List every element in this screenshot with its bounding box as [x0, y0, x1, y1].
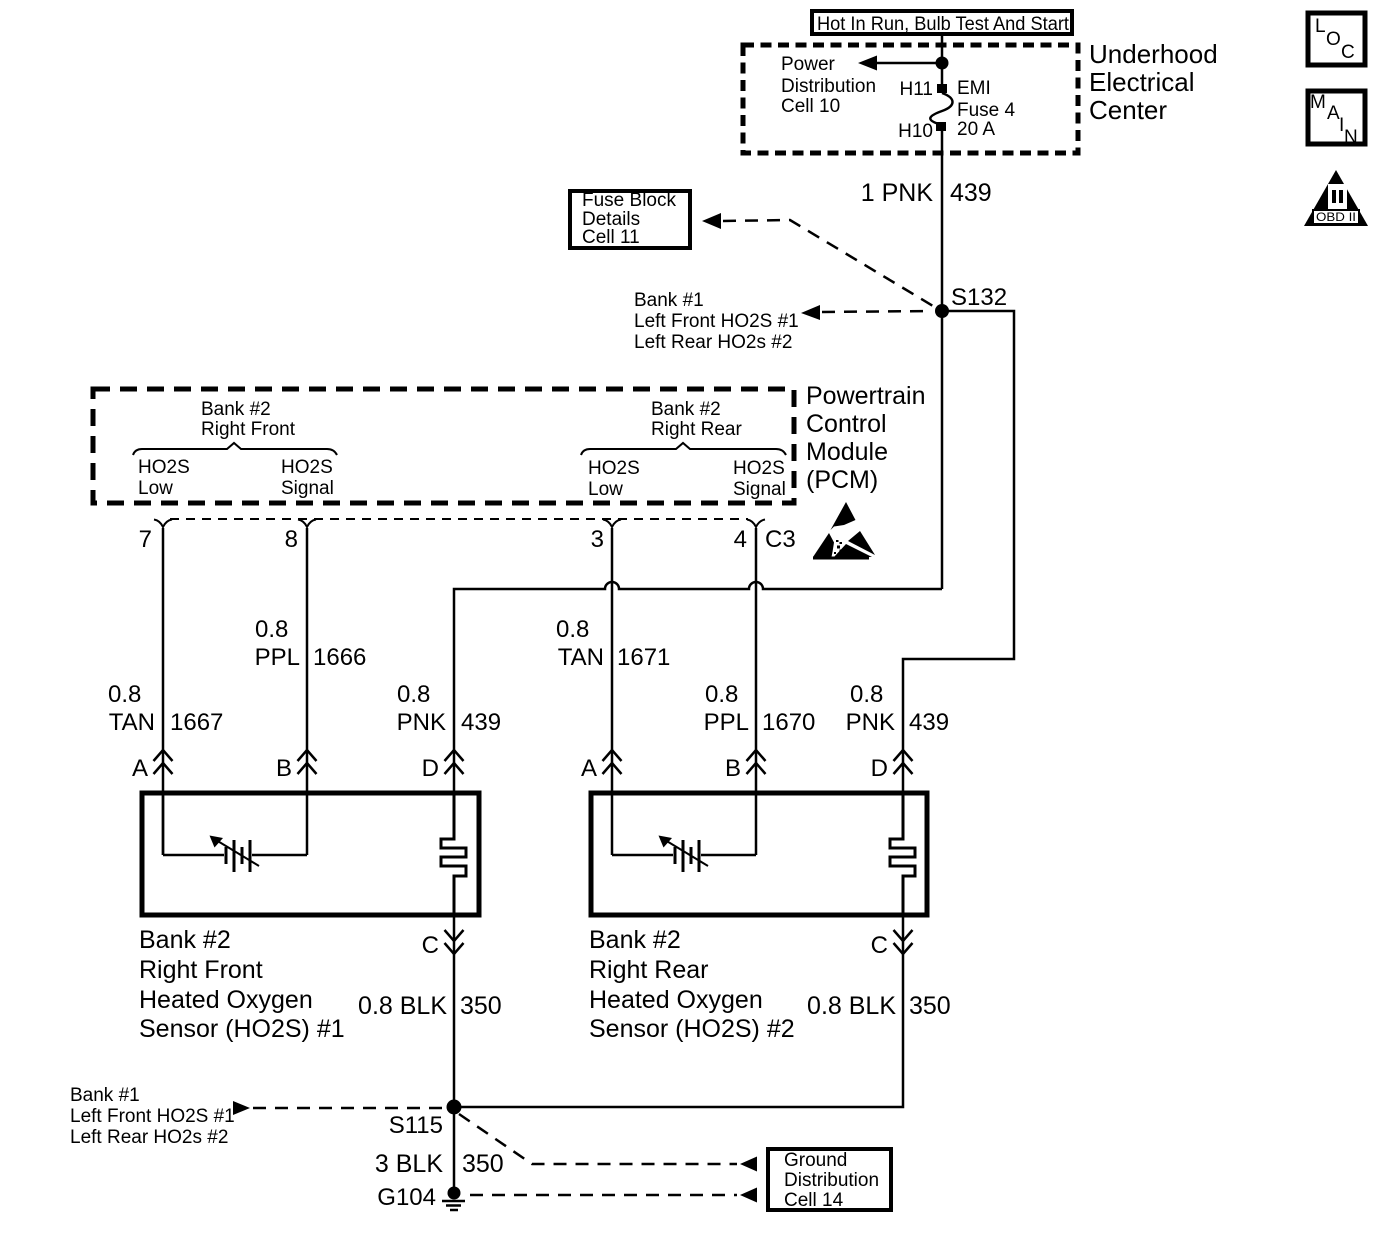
svg-text:Bank #2: Bank #2 — [201, 399, 271, 420]
svg-text:0.8: 0.8 — [556, 616, 589, 643]
label: 0.8 TAN 1667 — [108, 681, 223, 736]
svg-text:Bank #2: Bank #2 — [589, 926, 681, 954]
svg-text:Right Rear: Right Rear — [651, 419, 742, 440]
svg-text:Distribution: Distribution — [784, 1170, 879, 1191]
svg-text:350: 350 — [462, 1150, 504, 1178]
wire: main PNK 439 down and left to left sensor D (with hops) — [941, 311, 944, 589]
svg-text:0.8: 0.8 — [705, 681, 738, 708]
label box: Ground Distribution Cell 14 — [768, 1149, 891, 1211]
svg-text:1667: 1667 — [170, 709, 223, 736]
svg-text:Power: Power — [781, 54, 836, 75]
wire S115 to G104 — [453, 1107, 456, 1192]
svg-text:Left Front HO2S #1: Left Front HO2S #1 — [634, 311, 799, 332]
svg-text:Center: Center — [1089, 95, 1167, 125]
svg-text:0.8: 0.8 — [850, 681, 883, 708]
svg-text:Control: Control — [806, 410, 887, 438]
svg-text:Hot In Run, Bulb Test And Star: Hot In Run, Bulb Test And Start — [817, 14, 1070, 35]
svg-text:PPL: PPL — [704, 709, 749, 736]
connector pin A (sensor 1) — [132, 750, 173, 782]
label: HO2S Low (pin 3) — [588, 458, 640, 500]
svg-text:Left Rear HO2s #2: Left Rear HO2s #2 — [634, 332, 792, 353]
svg-text:HO2S: HO2S — [281, 457, 333, 478]
svg-text:Low: Low — [588, 479, 623, 500]
dashed reference arrow G104 to Ground Distribution — [470, 1188, 757, 1203]
sensor 1 box (HO2S #1) — [142, 793, 479, 915]
wire pin 4 to sensor 2 (HO2S signal) — [755, 538, 758, 855]
svg-text:D: D — [871, 755, 888, 782]
svg-text:20 A: 20 A — [957, 119, 995, 140]
label: 0.8 BLK 350 (right) — [807, 992, 951, 1020]
svg-text:Fuse Block: Fuse Block — [582, 190, 676, 211]
label: 0.8 BLK 350 (left) — [358, 992, 502, 1020]
label: PCM group Bank #2 Right Rear — [651, 399, 742, 440]
svg-text:(PCM): (PCM) — [806, 466, 878, 494]
svg-text:0.8 BLK: 0.8 BLK — [807, 992, 896, 1020]
svg-text:L: L — [1315, 16, 1326, 37]
svg-text:Right Front: Right Front — [139, 956, 263, 984]
svg-text:PNK: PNK — [846, 709, 895, 736]
node junction dot on feed wire — [936, 57, 949, 70]
dashed reference arrow to Bank #1 (top) — [801, 305, 932, 320]
svg-text:350: 350 — [909, 992, 951, 1020]
dashed reference arrow S115 to Ground Distribution — [459, 1114, 757, 1172]
label: Powertrain Control Module (PCM) — [806, 382, 926, 494]
svg-text:D: D — [422, 755, 439, 782]
svg-text:A: A — [581, 755, 597, 782]
LOC icon box — [1308, 13, 1365, 65]
svg-text:TAN: TAN — [558, 644, 604, 671]
label: Bank #1 reference (bottom) — [70, 1085, 235, 1148]
svg-text:1 PNK: 1 PNK — [861, 179, 934, 207]
svg-text:Heated Oxygen: Heated Oxygen — [139, 986, 313, 1014]
svg-text:0.8: 0.8 — [255, 616, 288, 643]
label: sensor 1 name — [139, 926, 345, 1043]
sensor 2 heater element — [890, 793, 915, 915]
MAIN icon box — [1308, 91, 1365, 148]
svg-text:Underhood: Underhood — [1089, 39, 1218, 69]
label: 0.8 PPL 1666 — [255, 616, 367, 671]
svg-text:EMI: EMI — [957, 78, 991, 99]
wire PNK 439 from fuse to S132 — [941, 131, 944, 311]
label box: Fuse Block Details Cell 11 — [570, 190, 690, 248]
svg-text:Left Front HO2S #1: Left Front HO2S #1 — [70, 1106, 235, 1127]
svg-text:Low: Low — [138, 478, 173, 499]
svg-text:Fuse 4: Fuse 4 — [957, 100, 1016, 121]
connector pin C (sensor 1) — [422, 930, 464, 959]
connector C3 dashed tie line — [170, 518, 748, 520]
svg-text:Bank #2: Bank #2 — [651, 399, 721, 420]
sensor 1 heater element — [441, 793, 466, 915]
label: HO2S Signal (pin 4) — [733, 458, 786, 500]
svg-text:S132: S132 — [951, 284, 1007, 311]
svg-text:8: 8 — [285, 526, 298, 553]
wire from Hot In Run box down to fuse — [941, 34, 944, 85]
label: Underhood Electrical Center — [1089, 39, 1218, 125]
svg-text:Cell 10: Cell 10 — [781, 96, 840, 117]
wire pin 7 to sensor 1 (HO2S low) — [162, 538, 165, 855]
svg-text:Powertrain: Powertrain — [806, 382, 926, 410]
svg-text:Heated Oxygen: Heated Oxygen — [589, 986, 763, 1014]
svg-text:Sensor (HO2S) #1: Sensor (HO2S) #1 — [139, 1015, 345, 1043]
svg-text:C: C — [1341, 42, 1355, 63]
svg-text:1671: 1671 — [617, 644, 670, 671]
svg-text:TAN: TAN — [109, 709, 155, 736]
svg-text:Signal: Signal — [281, 478, 334, 499]
connector pin B (sensor 1) — [276, 750, 317, 782]
label: Bank #1 reference (top) — [634, 290, 799, 353]
terminal H11 — [937, 84, 947, 93]
wire pin 8 to sensor 1 (HO2S signal) — [306, 538, 309, 855]
label: PCM group Bank #2 Right Front — [201, 399, 296, 440]
connector pin B (sensor 2) — [725, 750, 766, 782]
svg-text:S115: S115 — [389, 1112, 443, 1139]
svg-text:Ground: Ground — [784, 1150, 847, 1171]
terminal H10 — [936, 122, 946, 131]
svg-text:OBD II: OBD II — [1316, 210, 1356, 224]
svg-text:Electrical: Electrical — [1089, 67, 1194, 97]
svg-text:0.8: 0.8 — [397, 681, 430, 708]
label: 0.8 PPL 1670 — [704, 681, 816, 736]
label: HO2S Low (pin 7) — [138, 457, 190, 499]
svg-text:PPL: PPL — [255, 644, 300, 671]
underhood electrical center dashed box — [743, 45, 1078, 153]
brace right — [581, 443, 786, 455]
splice S132 — [935, 304, 949, 318]
fuse F4 EMI 20A — [930, 93, 952, 124]
svg-text:H11: H11 — [900, 79, 933, 100]
svg-text:0.8 BLK: 0.8 BLK — [358, 992, 447, 1020]
label: 0.8 PNK 439 (right) — [846, 681, 949, 736]
svg-text:Distribution: Distribution — [781, 76, 876, 97]
label: 1 PNK 439 — [861, 179, 992, 207]
svg-text:Right Front: Right Front — [201, 419, 296, 440]
connector pin 3 — [591, 520, 621, 554]
svg-text:C3: C3 — [765, 526, 796, 553]
wire pin 3 to sensor 2 (HO2S low) — [611, 538, 614, 855]
ESD sensitivity symbol — [813, 502, 875, 560]
label: 0.8 PNK 439 (left) — [397, 681, 501, 736]
label: EMI Fuse 4 20 A — [957, 78, 1016, 140]
svg-text:Bank #2: Bank #2 — [139, 926, 231, 954]
svg-text:439: 439 — [909, 709, 949, 736]
svg-text:7: 7 — [139, 526, 152, 553]
dashed reference arrow to Fuse Block Details — [702, 213, 938, 309]
sensor 2 box (HO2S #2) — [591, 793, 927, 915]
svg-text:Cell 14: Cell 14 — [784, 1190, 844, 1211]
OBD II icon — [1304, 170, 1368, 226]
connector pin D (sensor 1) — [422, 750, 464, 782]
sensor 2 variable cell element — [612, 836, 756, 873]
svg-text:439: 439 — [950, 179, 992, 207]
label box: Hot In Run, Bulb Test And Start — [812, 11, 1072, 35]
PCM dashed box — [93, 389, 794, 503]
svg-text:B: B — [276, 755, 292, 782]
connector pin 8 — [285, 520, 316, 554]
svg-text:3: 3 — [591, 526, 604, 553]
svg-text:HO2S: HO2S — [733, 458, 785, 479]
svg-text:M: M — [1310, 92, 1326, 113]
svg-text:C: C — [871, 932, 888, 959]
label: Power Distribution Cell 10 — [781, 54, 876, 117]
svg-text:1670: 1670 — [762, 709, 815, 736]
svg-text:C: C — [422, 932, 439, 959]
label: sensor 2 name — [589, 926, 795, 1043]
connector pin 7 — [139, 520, 172, 554]
svg-text:G104: G104 — [377, 1184, 436, 1211]
arrow to Power Distribution — [858, 56, 942, 71]
splice S115 — [447, 1100, 462, 1115]
svg-text:PNK: PNK — [397, 709, 446, 736]
wire sensor 1 C to S115 — [453, 915, 456, 1107]
svg-text:Cell 11: Cell 11 — [582, 227, 640, 248]
svg-text:Bank #1: Bank #1 — [70, 1085, 140, 1106]
svg-text:Sensor (HO2S) #2: Sensor (HO2S) #2 — [589, 1015, 795, 1043]
svg-text:0.8: 0.8 — [108, 681, 141, 708]
connector pin D (sensor 2) — [871, 750, 913, 782]
label: HO2S Signal (pin 8) — [281, 457, 334, 499]
svg-text:Module: Module — [806, 438, 888, 466]
svg-text:3 BLK: 3 BLK — [375, 1150, 443, 1178]
connector pin 4 — [734, 520, 765, 554]
svg-text:Right Rear: Right Rear — [589, 956, 709, 984]
ground G104 — [442, 1187, 465, 1211]
svg-text:4: 4 — [734, 526, 747, 553]
svg-text:HO2S: HO2S — [588, 458, 640, 479]
wire: S132 right branch down to right sensor D — [903, 311, 1014, 791]
dashed reference arrow from Bank #1 (bottom) to S115 — [233, 1101, 443, 1115]
connector pin A (sensor 2) — [581, 750, 622, 782]
sensor 1 variable cell element — [163, 793, 307, 872]
svg-text:O: O — [1326, 29, 1341, 50]
wire sensor 2 C to S115 — [454, 915, 903, 1107]
svg-text:1666: 1666 — [313, 644, 366, 671]
svg-text:HO2S: HO2S — [138, 457, 190, 478]
svg-text:H10: H10 — [898, 121, 933, 142]
svg-text:B: B — [725, 755, 741, 782]
svg-text:Signal: Signal — [733, 479, 786, 500]
label: 0.8 TAN 1671 — [556, 616, 670, 671]
label: 3 BLK 350 — [375, 1150, 504, 1178]
svg-text:350: 350 — [460, 992, 502, 1020]
svg-text:N: N — [1344, 127, 1358, 148]
svg-text:Left Rear HO2s #2: Left Rear HO2s #2 — [70, 1127, 228, 1148]
svg-text:439: 439 — [461, 709, 501, 736]
svg-text:A: A — [132, 755, 148, 782]
connector pin C (sensor 2) — [871, 930, 913, 959]
brace left — [133, 443, 337, 455]
svg-text:Bank #1: Bank #1 — [634, 290, 704, 311]
